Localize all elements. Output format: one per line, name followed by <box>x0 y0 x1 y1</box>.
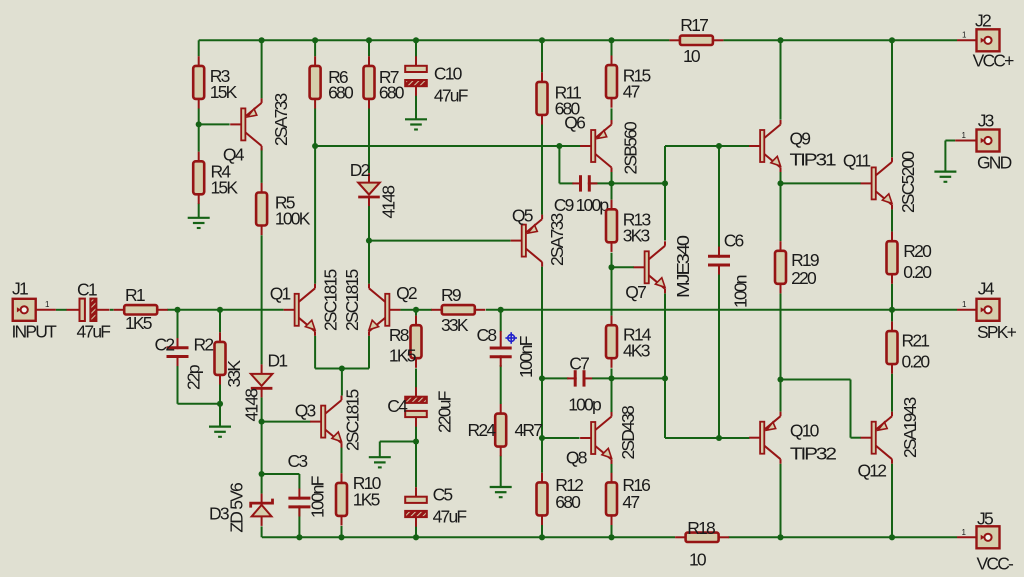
wire rail to C10 <box>415 40 417 57</box>
wire C8 branch down <box>500 310 502 332</box>
svg-text:R21: R21 <box>902 331 930 351</box>
wire C4 bottom to node G <box>415 418 417 441</box>
transistor Q6 2SB560 <box>591 130 595 162</box>
junction dot node D (D2/Q5 base) <box>366 238 372 244</box>
ground below J3 <box>934 171 956 173</box>
resistor R19 220 <box>780 241 782 251</box>
wire node N to Q10 emitter <box>780 380 782 412</box>
svg-text:Q3: Q3 <box>295 400 316 420</box>
svg-text:100nF: 100nF <box>307 476 327 518</box>
resistor R15 47 <box>611 56 613 66</box>
svg-text:220: 220 <box>791 268 817 288</box>
svg-text:680: 680 <box>379 82 405 102</box>
resistor R14 4K3 <box>611 316 613 326</box>
diode D2 4148 <box>368 173 370 183</box>
wire Q9 emitter to node M <box>780 172 782 183</box>
wire node A to Q3 base <box>262 421 311 423</box>
wire node C to Q6 base (y=146) <box>315 145 580 147</box>
svg-text:R24: R24 <box>468 420 497 440</box>
junction dot output node R9/C8 <box>498 307 504 313</box>
svg-text:2SC5200: 2SC5200 <box>898 151 918 213</box>
wire Q5 collector down long column <box>541 267 543 473</box>
wire D2 to node D <box>368 206 370 241</box>
wire R12 to bottom rail <box>541 525 543 537</box>
wire node B to C3 <box>262 473 300 475</box>
svg-text:3K3: 3K3 <box>623 225 650 245</box>
junction dot C4/ground/C5 node G <box>413 438 419 444</box>
resistor R2 33K <box>219 332 221 342</box>
junction dot node C (R6/Q6 base line) <box>312 143 318 149</box>
pin stub J4 <box>957 309 977 311</box>
svg-text:15K: 15K <box>210 82 238 102</box>
transistor Q7 MJE340 <box>645 251 649 283</box>
wire R11 to Q5 emitter <box>541 125 543 215</box>
wire Q8 base tap <box>542 437 580 439</box>
pin stub J1 <box>35 309 56 311</box>
svg-text:1K5: 1K5 <box>125 313 152 333</box>
wire top VCC+ rail right segment <box>723 39 957 41</box>
junction dot drive row C6 <box>716 435 722 441</box>
transistor Q8 2SD438 <box>591 422 595 454</box>
wire R15 column: rail to R15 <box>611 40 613 56</box>
svg-text:10: 10 <box>689 549 707 569</box>
wire R8 bottom to C4 <box>415 369 417 388</box>
svg-text:100K: 100K <box>275 209 311 229</box>
wire R21 to Q12 emitter <box>891 374 893 412</box>
wire Q6 collector to node H <box>611 172 613 183</box>
wire R4 to ground <box>198 203 200 217</box>
resistor R17 10 (top rail) <box>669 39 680 41</box>
svg-text:100n: 100n <box>730 275 750 308</box>
svg-text:47: 47 <box>622 492 639 512</box>
svg-text:R17: R17 <box>680 15 708 35</box>
resistor R1 1K5 <box>114 309 125 311</box>
svg-text:C1: C1 <box>77 280 97 300</box>
ground below R4 <box>188 217 210 219</box>
svg-text:SPK+: SPK+ <box>977 322 1017 342</box>
svg-text:VCC+: VCC+ <box>973 50 1015 70</box>
transistor Q1 2SC1815 <box>295 294 299 326</box>
origin marker C8 (blue) <box>505 332 517 344</box>
svg-text:C10: C10 <box>434 64 463 84</box>
svg-text:GND: GND <box>977 153 1012 173</box>
wire C2 bottom to R2 bottom <box>177 366 179 404</box>
svg-text:C5: C5 <box>433 485 453 505</box>
svg-text:680: 680 <box>328 82 354 102</box>
svg-text:47: 47 <box>623 81 640 101</box>
svg-text:2SA733: 2SA733 <box>547 213 567 266</box>
junction dot Q8 base tap <box>539 435 545 441</box>
svg-text:47uF: 47uF <box>433 506 467 526</box>
wire node N to Q12 base jog <box>781 379 851 381</box>
svg-text:J2: J2 <box>975 10 991 30</box>
wire C6 bottom down to drive row (crosses output line) <box>718 274 720 438</box>
svg-text:Q7: Q7 <box>625 282 646 302</box>
resistor R8 1K5 <box>415 316 417 326</box>
wire node H to R13 <box>611 183 613 199</box>
wire output line to R21 <box>891 310 893 322</box>
wire R7 column: rail to R7 to D2 <box>368 40 370 56</box>
wire R10 to bottom rail <box>341 526 343 537</box>
wire R13 to node J <box>611 253 613 268</box>
connector J4 <box>977 299 1000 321</box>
junction dot node I (x=665 y=183) <box>662 180 668 186</box>
svg-text:C9 100p: C9 100p <box>554 195 609 215</box>
svg-text:4148: 4148 <box>379 186 399 219</box>
svg-text:TIP32: TIP32 <box>790 443 836 463</box>
capacitor C9 100p <box>572 182 582 184</box>
svg-text:2SB560: 2SB560 <box>621 121 641 175</box>
wire node H to node I (y=183) <box>612 182 666 184</box>
svg-text:R19: R19 <box>791 250 819 270</box>
svg-text:D1: D1 <box>268 350 288 370</box>
wire C5 to bottom rail <box>415 518 417 537</box>
wire node G to ground arm <box>380 441 416 443</box>
svg-text:0.20: 0.20 <box>903 262 932 282</box>
resistor R21 0.20 <box>891 322 893 332</box>
resistor R20 0.20 <box>891 232 893 242</box>
wire D1 to node A <box>261 397 263 421</box>
resistor R7 680 <box>368 56 370 66</box>
svg-text:2SC1815: 2SC1815 <box>320 270 340 331</box>
svg-text:INPUT: INPUT <box>12 322 58 342</box>
capacitor C1 47uF input electrolytic <box>67 309 80 311</box>
wire Q11 collector to rail <box>891 40 893 157</box>
wire Q2 base to node F <box>400 309 416 311</box>
ground below R2/C2 <box>209 426 231 428</box>
svg-text:22p: 22p <box>184 365 204 390</box>
junction dot C2/R2 bottom <box>217 401 223 407</box>
wire node A down to node B <box>261 422 263 474</box>
wire corner to Q9 base (y=146) <box>665 145 750 147</box>
svg-text:47uF: 47uF <box>77 322 111 342</box>
svg-text:C3: C3 <box>288 451 308 471</box>
junction dot node J (R13/Q7 base) <box>608 264 614 270</box>
transistor Q2 2SC1815 (mirrored) <box>385 294 389 326</box>
transistor Q10 TIP32 <box>760 422 764 454</box>
svg-text:C4: C4 <box>387 396 408 416</box>
pin stub J5 <box>957 536 977 538</box>
wire Q7 collector up to corner <box>664 146 666 241</box>
svg-text:ZD 5V6: ZD 5V6 <box>227 483 247 533</box>
wire Q2 emitter down <box>368 336 370 369</box>
wire Q4 emitter to rail <box>261 40 263 98</box>
resistor R13 3K3 <box>611 200 613 210</box>
ground below C10 <box>405 118 427 120</box>
transistor Q4 2SA733 <box>241 108 245 140</box>
junction dot node L (Q7 emitter) <box>662 375 668 381</box>
svg-text:10: 10 <box>683 46 701 66</box>
junction dot node E (Q1/Q2 emitters) <box>339 365 345 371</box>
transistor Q11 2SC5200 <box>872 167 876 199</box>
wire Q3 emitter to R10 <box>341 448 343 474</box>
wire R5 to D1 (crosses input line) <box>261 235 263 364</box>
svg-text:Q9: Q9 <box>790 128 811 148</box>
wire Q11 emitter to R20 <box>891 209 893 231</box>
svg-text:Q6: Q6 <box>564 113 585 133</box>
junction dot node H (C9/R13) <box>608 180 614 186</box>
wire node G to C5 <box>415 442 417 488</box>
svg-text:Q1: Q1 <box>270 283 291 303</box>
svg-text:Q8: Q8 <box>566 448 587 468</box>
svg-text:1K5: 1K5 <box>353 490 380 510</box>
wire C9 right to R13 node <box>590 182 612 184</box>
svg-text:4R7: 4R7 <box>515 420 543 440</box>
svg-text:4K3: 4K3 <box>623 341 650 361</box>
junction dot node F (Q2 base/R8/R9) <box>413 307 419 313</box>
transistor Q3 2SC1815 <box>321 406 325 438</box>
svg-text:2SC1815: 2SC1815 <box>342 270 362 331</box>
wire C7 to node K to node L <box>592 377 665 379</box>
resistor R4 15K <box>198 152 200 162</box>
resistor R16 47 <box>611 473 613 483</box>
svg-text:2SA733: 2SA733 <box>271 93 291 146</box>
svg-text:D2: D2 <box>350 160 370 180</box>
connector J5 <box>977 526 1000 548</box>
wire node L down to drive row <box>664 378 666 438</box>
wire Q9 collector to rail <box>780 40 782 119</box>
connector J3 <box>977 130 1000 152</box>
svg-text:Q2: Q2 <box>396 283 417 303</box>
resistor R12 680 <box>541 473 543 483</box>
wire R8 top <box>415 310 417 316</box>
wire node B down to D3 <box>261 474 263 494</box>
wire node J to Q7 base <box>612 266 635 268</box>
wire Q7 emitter down (crosses output line) to node L <box>664 293 666 378</box>
wire Q1 emitter to node E <box>315 368 342 370</box>
wire C10 to ground <box>415 96 417 120</box>
resistor R18 10 (bottom rail) <box>675 536 686 538</box>
wire R16 to bottom rail <box>611 525 613 537</box>
svg-text:VCC-: VCC- <box>977 554 1015 574</box>
svg-text:R18: R18 <box>687 518 715 538</box>
capacitor C2 22p <box>177 338 179 349</box>
junction dot C7 tap <box>539 375 545 381</box>
resistor R24 4R7 <box>500 404 502 414</box>
wire Q4 base <box>199 123 230 125</box>
wire R2 bottom to ground <box>219 375 221 404</box>
wire node D to Q2 collector <box>368 241 370 284</box>
svg-text:R8: R8 <box>389 325 409 345</box>
junction dots input line <box>174 307 180 313</box>
svg-text:Q11: Q11 <box>843 150 870 170</box>
svg-text:R2: R2 <box>194 335 214 355</box>
wire D3 to bottom rail corner <box>261 526 263 537</box>
wire Q4 collector to R5 <box>261 148 263 183</box>
wire R24 to ground <box>500 456 502 488</box>
svg-text:2SA1943: 2SA1943 <box>900 398 920 458</box>
junction dots bottom rail <box>296 534 302 540</box>
svg-text:33K: 33K <box>224 360 244 388</box>
svg-text:33K: 33K <box>441 315 469 335</box>
diode D3 zener ZD 5V6 <box>261 494 263 504</box>
wire node M to R19 <box>780 183 782 241</box>
svg-text:Q4: Q4 <box>223 144 245 164</box>
capacitor C5 47uF <box>415 487 417 497</box>
wire R6 column: rail to R6 to node C to Q1 collector <box>314 40 316 56</box>
svg-text:R9: R9 <box>441 285 461 305</box>
capacitor C4 220uF <box>415 387 417 397</box>
wire node F to R9 <box>416 309 432 311</box>
wire bottom VCC- rail right segment <box>729 536 958 538</box>
wire R20 to output line <box>891 284 893 310</box>
capacitor C8 100nF <box>500 331 502 350</box>
svg-text:C6: C6 <box>724 231 744 251</box>
connector J1 <box>13 299 36 321</box>
capacitor C7 100p <box>567 377 577 379</box>
junction dot Q4 base node <box>196 121 202 127</box>
wire node M to Q11 base <box>781 182 862 184</box>
svg-text:Q10: Q10 <box>790 421 820 441</box>
wire C7 tap from column <box>542 377 569 379</box>
svg-text:R20: R20 <box>903 241 932 261</box>
junction dot C6 top tap <box>716 143 722 149</box>
svg-text:R1: R1 <box>125 285 145 305</box>
connector J2 <box>977 29 1000 51</box>
resistor R5 100K <box>261 183 263 193</box>
capacitor C10 47uF <box>415 56 417 66</box>
svg-text:680: 680 <box>555 492 581 512</box>
svg-text:MJE340: MJE340 <box>673 235 693 298</box>
wire node J to R14 (crosses output line) <box>611 267 613 315</box>
svg-text:2SC1815: 2SC1815 <box>343 390 363 451</box>
junction dot node A (D1/Q3 base) <box>259 419 265 425</box>
wire bottom VCC- rail left segment <box>262 536 675 538</box>
wire R3-R4 left bias column <box>198 40 200 56</box>
wire input line J1 to Q1 base <box>56 309 67 311</box>
transistor Q12 2SA1943 <box>872 422 876 454</box>
svg-text:C7: C7 <box>569 353 589 373</box>
svg-text:C8: C8 <box>477 325 497 345</box>
svg-text:Q12: Q12 <box>858 461 887 481</box>
svg-text:Q5: Q5 <box>512 205 533 225</box>
wire node D to Q5 base <box>369 240 511 242</box>
svg-text:J4: J4 <box>978 278 995 298</box>
svg-text:47uF: 47uF <box>434 86 468 106</box>
wire R2 branch down <box>219 310 221 333</box>
wire R14 bottom to node K <box>611 369 613 379</box>
wire C3 to bottom rail <box>298 507 300 537</box>
svg-text:100p: 100p <box>568 394 601 414</box>
svg-text:220uF: 220uF <box>434 391 454 433</box>
junction dot node M (Q9 emitter/Q11 base) <box>777 180 783 186</box>
wire Q10 collector to bottom rail <box>780 464 782 538</box>
wire C9 tap down from Q6 base line <box>558 146 560 183</box>
junction dot output line R20/R21 <box>889 307 895 313</box>
junction dot node K (R14/C7) <box>608 375 614 381</box>
svg-text:1K5: 1K5 <box>389 345 416 365</box>
pin stub J3 <box>955 140 976 142</box>
svg-text:15K: 15K <box>211 177 239 197</box>
wire top VCC+ rail left segment <box>199 39 670 41</box>
capacitor C6 100n <box>718 247 720 258</box>
wire R19 to node N (crosses output line) <box>780 293 782 379</box>
wire output line R9 to J4 <box>486 309 957 311</box>
svg-text:TIP31: TIP31 <box>790 150 836 170</box>
svg-text:J1: J1 <box>12 279 28 299</box>
svg-text:4148: 4148 <box>242 389 262 422</box>
junction dot node B (C3/D3) <box>259 471 265 477</box>
capacitor C3 100nF <box>298 489 300 500</box>
wire node E to Q3 collector <box>341 369 343 396</box>
wire R11 column rail to R11 <box>541 40 543 72</box>
wire J3 GND arm <box>945 140 955 142</box>
junction dot C9 tap <box>556 143 562 149</box>
junction dot node N (R19/Q10/Q12 base) <box>777 376 783 382</box>
diode D1 4148 <box>261 364 263 374</box>
pin stub J2 <box>957 39 977 41</box>
wire drive row to C6 node to Q10 base <box>665 437 750 439</box>
wire C6 from Q9 base line down <box>718 146 720 247</box>
wire Q8 emitter to R16 <box>611 464 613 474</box>
wire C8 to R24 <box>500 365 502 404</box>
svg-text:2SD438: 2SD438 <box>618 406 638 460</box>
transistor Q9 TIP31 <box>760 130 764 162</box>
wire Q2 emitter to node E <box>342 368 369 370</box>
resistor R10 1K5 <box>341 473 343 483</box>
svg-text:0.20: 0.20 <box>902 352 931 372</box>
resistor R3 15K <box>198 56 200 66</box>
wire C2 branch down <box>177 310 179 339</box>
junction dots top rail <box>259 37 265 43</box>
transistor Q5 2SA733 <box>522 225 526 257</box>
ground below R24 <box>490 486 512 488</box>
resistor R11 680 <box>541 72 543 82</box>
resistor R6 680 <box>314 56 316 66</box>
wire R15 to Q6 emitter <box>611 108 613 120</box>
resistor R9 33K <box>431 309 442 311</box>
ground left of C4 <box>369 456 391 458</box>
svg-text:J5: J5 <box>977 508 993 528</box>
svg-text:C2: C2 <box>155 335 175 355</box>
svg-text:J3: J3 <box>978 110 994 130</box>
svg-text:100nF: 100nF <box>516 336 536 378</box>
wire node K down to Q8 collector <box>611 378 613 412</box>
wire Q1 emitter down <box>314 336 316 369</box>
wire Q12 collector to bottom rail <box>891 464 893 538</box>
